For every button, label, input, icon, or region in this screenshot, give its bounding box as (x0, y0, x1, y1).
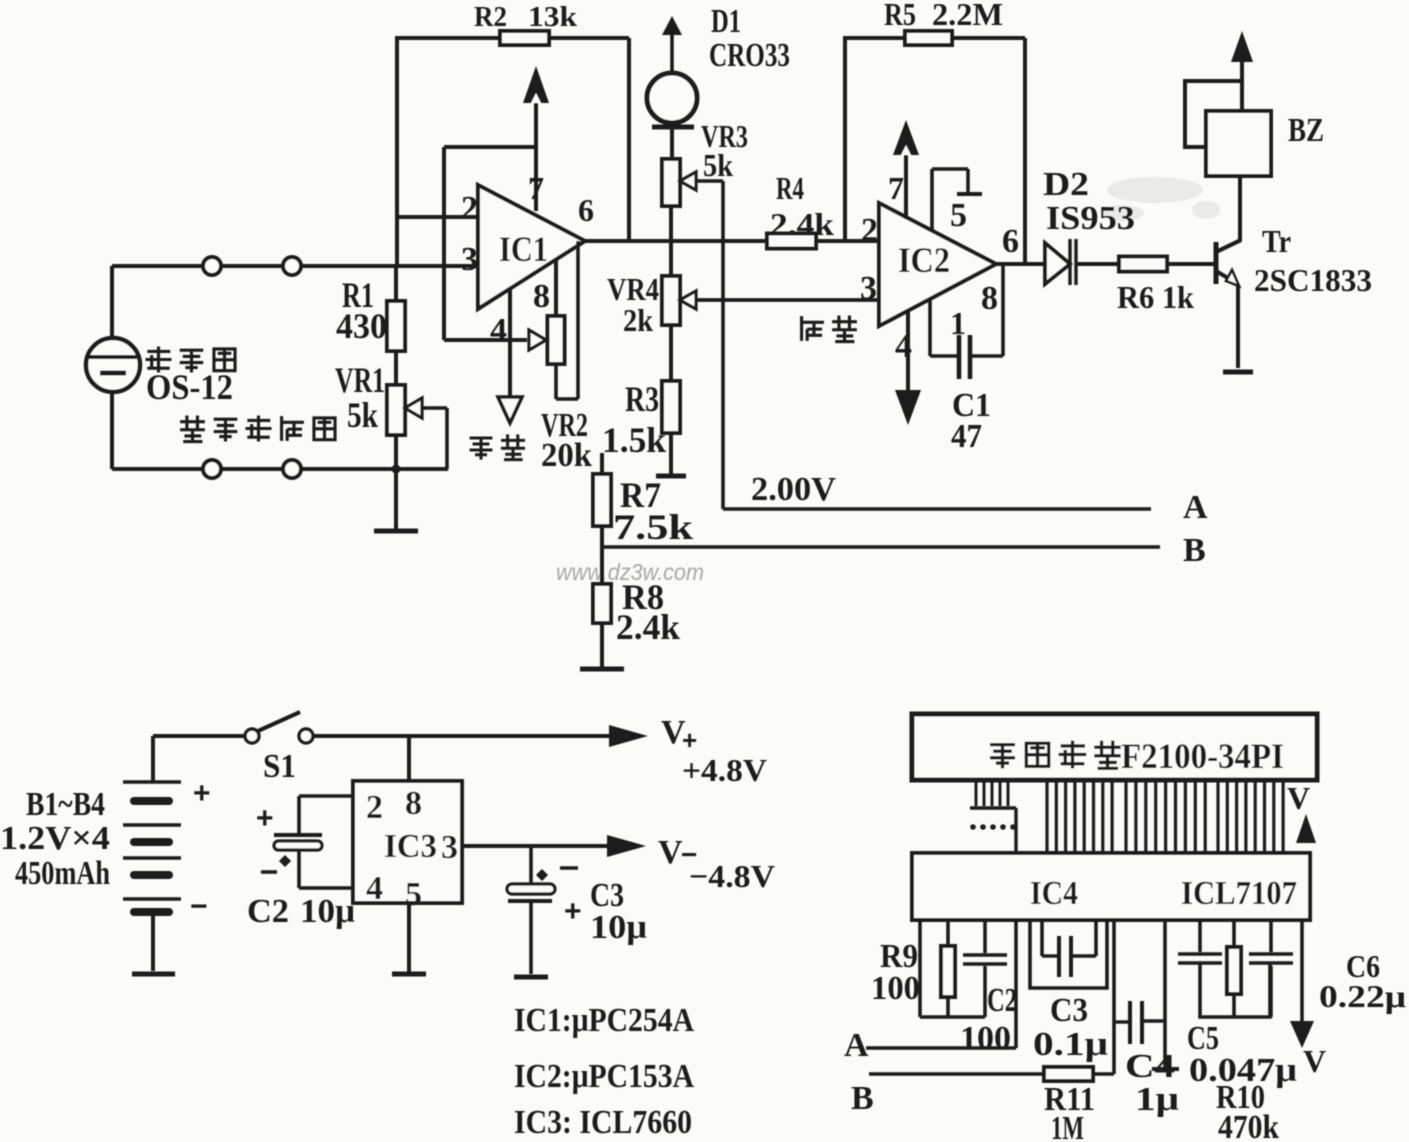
svg-text:100: 100 (871, 970, 920, 1007)
svg-text:D2: D2 (1043, 166, 1089, 203)
svg-text:2: 2 (461, 190, 478, 227)
capacitor C2 10u (pump) (274, 796, 353, 888)
svg-text:+4.8V: +4.8V (682, 752, 767, 788)
svg-text:10μ: 10μ (590, 909, 647, 946)
svg-text:B: B (851, 1080, 874, 1117)
ground under R3 (656, 474, 686, 479)
label R4 2.4k (770, 170, 834, 242)
svg-text:R2: R2 (474, 2, 507, 33)
svg-text:20k: 20k (541, 437, 592, 474)
polarity marks C2 (261, 855, 291, 872)
resistor R7 (593, 453, 611, 547)
wire: IC3 pin3 V- rail (462, 844, 612, 848)
wire: R9/C2 bottom bar (920, 1015, 985, 1019)
label VR2 20k (541, 407, 592, 474)
transistor Tr 2SC1833 (1216, 176, 1241, 368)
resistor R3 (662, 325, 680, 474)
svg-text:4: 4 (366, 870, 383, 907)
IC3 box (353, 781, 462, 903)
svg-text:7.5k: 7.5k (613, 507, 693, 547)
svg-text:0.22μ: 0.22μ (1319, 978, 1406, 1014)
LCD long pins to IC4 (1047, 780, 1283, 853)
svg-text:6: 6 (1002, 223, 1019, 260)
svg-text:2.00V: 2.00V (751, 471, 836, 508)
svg-text:5k: 5k (347, 395, 378, 435)
resistor R5 (905, 31, 952, 45)
svg-text:47: 47 (951, 418, 982, 455)
svg-text:2SC1833: 2SC1833 (1254, 262, 1372, 298)
svg-text:5k: 5k (703, 147, 733, 183)
svg-text:−: − (190, 890, 208, 923)
svg-text:C3: C3 (1050, 992, 1088, 1029)
wire: B line (602, 545, 1160, 549)
buzzer BZ (1185, 81, 1271, 176)
svg-text:10μ: 10μ (300, 893, 355, 930)
terminal circles on top rail (203, 257, 301, 275)
wire+arrow: BZ top V+ (1231, 31, 1253, 111)
label R3 1.5k (602, 379, 666, 460)
svg-text:B: B (1183, 532, 1206, 569)
wire: IC3 pin8 from V+ rail (407, 736, 411, 781)
svg-text:VR1: VR1 (335, 360, 385, 400)
label D2 IS953 (1043, 166, 1135, 237)
capacitor C6 0.22u (1249, 920, 1293, 1017)
LCD display box (F2100-34PI) (912, 714, 1317, 780)
wire: R5 top rail (845, 36, 1025, 40)
label C5 0.047u (1187, 1020, 1297, 1089)
label variable-resistor Chinese: ke-bian-dian-zu-qi (180, 415, 335, 441)
svg-text:6: 6 (578, 192, 594, 228)
integrator bracket (1200, 963, 1270, 1017)
svg-text:+: + (564, 895, 582, 928)
wire: IC2 pin4 down + V- arrow (895, 311, 921, 425)
resistor R1 (387, 266, 405, 385)
V+ rail arrow (609, 725, 648, 747)
svg-text:1.2V×4: 1.2V×4 (0, 820, 110, 857)
svg-text:IC2:μPC153A: IC2:μPC153A (514, 1058, 694, 1095)
label C1 47 (951, 387, 991, 455)
svg-text:4: 4 (895, 328, 912, 365)
resistor R6 (1119, 257, 1167, 272)
svg-text:+: + (256, 802, 274, 835)
label R5 2.2M (884, 0, 1003, 32)
svg-text:4: 4 (490, 312, 507, 349)
svg-text:1.5k: 1.5k (602, 420, 666, 460)
svg-text:V: V (1287, 780, 1310, 816)
resistor R11 1M (869, 1067, 1114, 1081)
svg-text:C4: C4 (1125, 1048, 1175, 1085)
label VR3 5k (701, 118, 748, 183)
label alarm Chinese bao-jing (802, 315, 857, 341)
svg-text:+: + (193, 777, 211, 810)
svg-text:2.4k: 2.4k (770, 206, 834, 242)
arrow up (IC4 V+) (1296, 814, 1316, 843)
svg-text:2: 2 (861, 212, 878, 249)
label C3 0.1u (1033, 992, 1108, 1063)
op-amp IC1 triangle (478, 185, 585, 309)
label R7 7.5k (613, 475, 693, 547)
svg-text:IC3: ICL7660: IC3: ICL7660 (514, 1104, 692, 1141)
wire: IC3 pin5 ground (407, 903, 411, 972)
wire: bottom A line (866, 1046, 1016, 1050)
svg-text:IC1: IC1 (499, 229, 548, 269)
svg-text:R6 1k: R6 1k (1117, 279, 1194, 315)
resistor R4 (767, 234, 816, 249)
notes IC1/IC2/IC3 types (514, 1002, 694, 1141)
capacitor C4 1u (1114, 1001, 1165, 1044)
svg-text:0.1μ: 0.1μ (1033, 1026, 1108, 1063)
resistor R2 (500, 31, 549, 45)
wire: IC1 pin7 up (534, 103, 538, 211)
label R2 13k (474, 2, 577, 33)
label sensor Chinese: chuan-gan-qi (145, 346, 235, 372)
wire: R2 right vertical down to IC1 output (627, 38, 631, 241)
label C3 10u (590, 877, 647, 946)
battery B1-B4 (123, 736, 181, 971)
label C2 100 (ref) (960, 982, 1017, 1057)
LED D1 CRO33 (647, 16, 697, 159)
svg-text:IC4: IC4 (1030, 875, 1078, 912)
svg-text:1M: 1M (1051, 1110, 1084, 1142)
svg-text:S1: S1 (263, 748, 296, 785)
svg-text:R3: R3 (625, 379, 659, 419)
zero-adjust open down arrow (tiao-ling) (498, 397, 522, 423)
svg-text:Tr: Tr (1262, 223, 1291, 259)
oscillator bracket (IC4) (1030, 920, 1107, 988)
wire: sensor bottom lead (110, 392, 114, 469)
capacitor C3 10u (507, 846, 555, 974)
wire: R5 left vertical (843, 36, 847, 241)
wiper arrow into VR2 (529, 330, 546, 350)
label C2 10u (247, 893, 355, 930)
wire: C4 right termination (1152, 920, 1179, 1069)
wire: IC4 pin to R11 (1112, 920, 1116, 1074)
svg-text:1μ: 1μ (1135, 1081, 1179, 1118)
ground under Tr emitter (1223, 370, 1253, 375)
wire: R6 to Tr base (1167, 262, 1214, 266)
label VR4 2k (607, 271, 659, 338)
terminal circles on bottom rail (203, 460, 301, 478)
svg-text:7: 7 (888, 170, 904, 206)
wire: R5 right vertical to IC2 output (1023, 38, 1027, 264)
wire: D2 to R6 (1077, 262, 1119, 266)
wire: bottom rail (sensor to VR1) (112, 467, 448, 471)
svg-text:3: 3 (461, 241, 478, 278)
svg-text:2: 2 (366, 789, 383, 826)
potentiometer VR2 (548, 241, 579, 399)
svg-text:+: + (682, 725, 697, 755)
svg-text:470k: 470k (1218, 1109, 1279, 1142)
ground under IC3 (392, 972, 426, 977)
IC4 box (912, 853, 1310, 920)
label R8 2.4k (616, 577, 680, 647)
svg-text:C2: C2 (247, 893, 289, 930)
svg-text:V: V (658, 834, 683, 871)
svg-text:2k: 2k (623, 302, 653, 338)
svg-text:8: 8 (533, 278, 550, 315)
op-amp IC2 triangle (879, 203, 996, 326)
ellipsis dots (970, 824, 1016, 830)
wire+arrow: IC4 V- down (1290, 920, 1314, 1048)
wire: R2 left vertical (pin2 feedback) (395, 36, 399, 266)
scan smudge near D2/BZ (1100, 177, 1220, 221)
svg-text:450mAh: 450mAh (15, 855, 110, 892)
wire: VR3 wiper down to A line (723, 181, 1151, 509)
wire: IC2 pin3 from VR4 wiper (696, 298, 879, 302)
capacitor C5 0.047u (1178, 920, 1222, 963)
svg-text:100: 100 (960, 1020, 1011, 1057)
LCD short pin group + bus (970, 780, 1016, 853)
pin 5 stub (IC2) (932, 169, 982, 230)
wire+arrow: IC2 pin7 V+ (893, 120, 919, 219)
svg-text:D1: D1 (711, 3, 741, 40)
svg-text:8: 8 (981, 280, 998, 317)
svg-text:IS953: IS953 (1046, 200, 1135, 237)
label C6 0.22u (1319, 948, 1406, 1014)
svg-text:V: V (1303, 1043, 1326, 1079)
potentiometer VR1 (387, 385, 447, 469)
svg-text:1: 1 (950, 305, 966, 341)
resistor R8 (593, 547, 611, 668)
svg-text:−4.8V: −4.8V (689, 858, 775, 894)
svg-text:A: A (1183, 489, 1208, 526)
resistor R9 (941, 920, 955, 1017)
svg-text:F2100-34PI: F2100-34PI (1121, 736, 1284, 776)
label D1 CRO33 (709, 3, 790, 74)
V+ arrow above IC1 (523, 66, 549, 103)
svg-text:IC1:μPC254A: IC1:μPC254A (514, 1002, 694, 1039)
svg-text:CRO33: CRO33 (709, 37, 790, 74)
wire: IC2 output to D2 (996, 262, 1045, 266)
svg-text:430: 430 (336, 306, 387, 346)
svg-text:13k: 13k (528, 2, 577, 33)
label V+ (661, 714, 697, 755)
label R10 470k (1216, 1079, 1279, 1142)
label R1 430 (336, 275, 387, 346)
label Tr 2SC1833 (1254, 223, 1372, 298)
potentiometer VR4 (662, 241, 879, 325)
battery ground bar (132, 972, 175, 977)
polarity marks C3 (536, 868, 578, 881)
label C4 1u (1125, 1048, 1179, 1118)
capacitor C2 100 (ref) (963, 920, 1007, 1017)
svg-text:2.4k: 2.4k (616, 607, 680, 647)
svg-text:2.2M: 2.2M (932, 0, 1003, 32)
svg-text:A: A (844, 1027, 869, 1064)
label LCD Chinese ye-jing-xian-shi + F2100-34PI (990, 736, 1284, 776)
svg-text:R5: R5 (884, 0, 916, 32)
svg-text:R4: R4 (776, 170, 804, 206)
diode D2 IS953 (1045, 239, 1076, 285)
svg-text:C2: C2 (987, 982, 1017, 1019)
resistor R10 470k (1227, 920, 1241, 1017)
V- rail arrow (607, 835, 646, 857)
label R11 1M (1044, 1081, 1095, 1142)
label R9 100 (871, 938, 920, 1007)
svg-text:IC3: IC3 (384, 828, 437, 865)
label VR1 5k (335, 360, 385, 435)
svg-text:BZ: BZ (1288, 112, 1324, 149)
wire: IC1 pin2 input (397, 215, 478, 219)
wire: IC4 pin down to A line (1014, 920, 1018, 1048)
capacitor C3 0.1u (osc) (1042, 920, 1096, 977)
label tiao-ling Chinese (470, 434, 525, 459)
wire: VR3 bottom to rail (669, 206, 673, 241)
wire: sensor top lead (110, 266, 114, 338)
svg-text:8: 8 (405, 785, 422, 822)
svg-text:3: 3 (441, 829, 458, 866)
junction dot VR1/bottom rail (392, 465, 401, 474)
svg-text:B1~B4: B1~B4 (26, 786, 105, 823)
label V- (658, 834, 697, 871)
ground under R8 (580, 667, 624, 672)
sensor OS-12 (gas sensor symbol) (86, 338, 140, 392)
wire: top rail (sensor to IC1 pin3) (112, 264, 478, 268)
wire: IC1 output rail to IC2 pin2 (585, 239, 879, 243)
svg-text:IC2: IC2 (898, 240, 950, 280)
ground under VR1 (374, 529, 418, 534)
wire: VR1 bottom to ground stub (394, 435, 398, 530)
svg-text:5: 5 (950, 197, 967, 234)
wire: IC1 offset box (pin7 top rail, left vertical, pin4 rail) (444, 147, 536, 340)
switch S1 (153, 712, 616, 743)
potentiometer VR3 (662, 159, 723, 206)
svg-text:ICL7107: ICL7107 (1181, 875, 1297, 912)
svg-text:OS-12: OS-12 (146, 367, 233, 407)
wire: IC4 leftmost pin down (918, 920, 922, 1017)
capacitor C1 47 (930, 264, 1003, 379)
ground under C3 (514, 975, 548, 980)
wire: IC1 pin4 vertical (508, 289, 512, 397)
wire: R2 top rail (397, 36, 629, 40)
